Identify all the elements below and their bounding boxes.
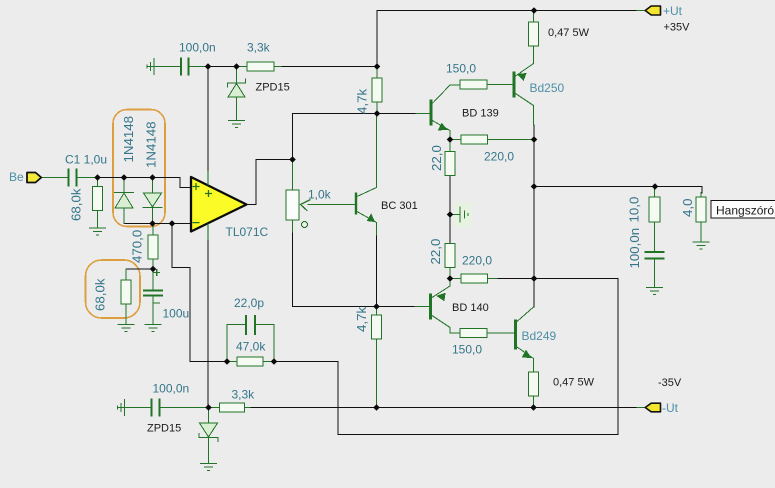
Zobel 10,0 lead and capacitor 100,0n right — [646, 252, 664, 259]
resistor 3,3k top body — [247, 62, 274, 71]
wire output column x=534 — [533, 125, 535, 307]
svg-text:BD 139: BD 139 — [462, 108, 499, 120]
svg-text:100,0n: 100,0n — [627, 228, 642, 269]
ground under 100u — [145, 325, 161, 332]
svg-text:1,0k: 1,0k — [308, 188, 332, 202]
junction Bd250 collector / 220,0 — [531, 136, 538, 143]
svg-text:100u: 100u — [163, 307, 190, 321]
wire +Ut top rail — [377, 11, 637, 67]
ground sideways mid — [450, 207, 468, 222]
svg-text:68,0k: 68,0k — [93, 278, 108, 311]
resistor 47,0k leads — [227, 361, 274, 363]
junction output to speaker — [531, 183, 538, 190]
22,0 column between emitters — [449, 140, 451, 279]
orange ring around 68,0k resistor — [86, 260, 141, 318]
diode D1 1N4148 cathode-up — [115, 178, 134, 224]
svg-text:+35V: +35V — [664, 22, 691, 34]
wire -Ut bottom rail — [250, 407, 637, 409]
junction 4,7k lower / -Ut rail — [373, 404, 380, 411]
ground under ZPD15 top — [229, 121, 245, 128]
junction inverting input node — [169, 220, 176, 227]
svg-text:1N4148: 1N4148 — [144, 121, 159, 168]
resistor 0,47 5W top leads — [533, 11, 535, 64]
capacitor 100u electrolytic — [144, 291, 162, 296]
junction +15V zener node left — [205, 63, 212, 70]
ground sideways bottom-left — [118, 400, 152, 416]
transistor BD139 — [430, 101, 433, 124]
resistor 0,47 5W top body — [529, 22, 539, 46]
junction 4,7k top / +Ut drop — [374, 63, 381, 70]
ground under 4,0 — [693, 242, 709, 249]
BC301 collector lead — [357, 114, 377, 197]
capacitor 22,0p with stubs — [227, 325, 274, 362]
resistor 68,0k input body — [93, 187, 103, 211]
ground sideways top-left — [147, 59, 180, 75]
svg-text:100,0n: 100,0n — [153, 382, 190, 396]
pad lead +Ut — [637, 10, 646, 12]
svg-text:Hangszóró: Hangszóró — [716, 204, 774, 218]
junction Bd249 collector / 220,0 / feedback — [531, 275, 538, 282]
junction BC301 emitter / 4,7k lower — [373, 303, 380, 310]
svg-text:3,3k: 3,3k — [232, 388, 256, 402]
svg-text:ZPD15: ZPD15 — [147, 423, 181, 435]
junction input node / 68,0k — [94, 174, 101, 181]
pad +Ut — [645, 6, 660, 15]
ground sideways mid highlight — [454, 203, 472, 227]
resistor 220,0 lower leads — [450, 278, 497, 280]
pad lead -Ut — [637, 407, 646, 409]
svg-text:0,47 5W: 0,47 5W — [553, 377, 595, 389]
junction op-amp output node — [374, 110, 381, 117]
resistor 3,3k bottom leads — [209, 407, 251, 409]
resistor 4,7k lower leads — [376, 307, 378, 408]
junction BD140 emitter / 22,0 / 220,0 — [447, 275, 454, 282]
wire op-amp output to driver bases node — [246, 114, 416, 205]
svg-text:C1 1,0u: C1 1,0u — [65, 153, 107, 167]
junction BD139 emitter / 22,0 / 220,0 — [447, 136, 454, 143]
resistor 22,0 lower body — [445, 244, 455, 268]
resistor 150,0 upper right lead — [487, 84, 513, 86]
resistor 4,7k upper body — [372, 78, 382, 102]
pad -Ut — [645, 403, 660, 412]
wire net +15V rail top-left to 4,7k — [204, 66, 377, 68]
svg-text:47,0k: 47,0k — [236, 340, 266, 354]
zener ZPD15 top — [228, 67, 246, 121]
svg-text:-35V: -35V — [658, 377, 682, 389]
resistor 150,0 lower right lead — [487, 332, 514, 334]
wire inverting node to 47,0k feedback resistor — [172, 224, 227, 362]
svg-text:0,47 5W: 0,47 5W — [548, 27, 590, 39]
resistor 220,0 upper leads — [450, 139, 534, 141]
junction 0,47 5W bottom / -Ut rail — [530, 404, 537, 411]
junction D1 anode-top — [121, 174, 128, 181]
junction -15V zener node — [205, 404, 212, 411]
pad lead Be — [41, 177, 69, 179]
resistor 10,0 body — [649, 197, 660, 222]
potentiometer 1,0k leads and wiper — [293, 160, 356, 233]
resistor 3,3k bottom body — [220, 403, 245, 412]
svg-text:Bd250: Bd250 — [530, 81, 565, 95]
resistor 220,0 upper body — [461, 135, 488, 144]
svg-text:TL071C: TL071C — [226, 225, 269, 239]
svg-text:4,7k: 4,7k — [354, 307, 369, 332]
Hangszoro box — [711, 201, 775, 219]
resistor 150,0 lower body — [460, 329, 487, 338]
capacitor 100,0n bottom — [152, 400, 160, 416]
resistor 68,0k lower body — [121, 280, 131, 304]
orange ring around 1N4148 diodes — [113, 110, 165, 227]
resistor 4,0 body — [696, 197, 706, 222]
resistor 68,0k input leads — [97, 178, 99, 228]
svg-text:220,0: 220,0 — [462, 254, 492, 268]
junction D2 top — [149, 174, 156, 181]
svg-text:4,0: 4,0 — [680, 199, 695, 218]
svg-text:68,0k: 68,0k — [69, 188, 84, 221]
svg-text:10,0: 10,0 — [627, 197, 642, 223]
resistor 0,47 5W bottom leads — [533, 396, 535, 408]
resistor 0,47 5W bottom body — [529, 372, 539, 396]
transistor BD140 — [429, 295, 432, 318]
wire node to 470,0 / 68,0k branch — [126, 268, 153, 270]
svg-text:BD 140: BD 140 — [452, 302, 489, 314]
svg-text:-Ut: -Ut — [662, 401, 679, 415]
potentiometer 1,0k body — [286, 190, 299, 220]
resistor 4,0 leads — [700, 193, 702, 242]
svg-text:22,0: 22,0 — [428, 239, 443, 265]
transistor BC301 — [355, 193, 357, 215]
wire diode bottom rail to op-amp - input — [124, 223, 191, 225]
junction 47,0k right / 22,0p — [271, 358, 278, 365]
svg-text:1N4148: 1N4148 — [121, 116, 136, 163]
svg-text:22,0p: 22,0p — [234, 296, 264, 310]
junction Zobel branch — [652, 183, 659, 190]
resistor 68,0k lower leads — [125, 269, 127, 324]
junction 47,0k left / 22,0p — [224, 358, 231, 365]
resistor 150,0 upper body — [460, 80, 487, 89]
wire between 22,0 emitter resistors — [449, 176, 451, 244]
ground under Zobel — [647, 288, 663, 295]
svg-text:BC 301: BC 301 — [381, 200, 418, 212]
resistor 22,0 upper body — [445, 152, 455, 176]
op-amp U1 TL071C — [191, 177, 247, 232]
resistor 470,0 body — [148, 235, 158, 259]
junction 0,47 5W top / +Ut rail — [531, 7, 538, 14]
diode D2 1N4148 cathode-down — [143, 178, 162, 224]
resistor 4,7k lower body — [372, 315, 382, 339]
svg-text:100,0n: 100,0n — [179, 41, 216, 55]
junction output jog / pot top — [289, 156, 296, 163]
svg-text:Bd249: Bd249 — [522, 329, 557, 343]
op-amp supply pin stubs — [207, 171, 209, 240]
resistor 3,3k top leads — [237, 66, 282, 68]
wire op-amp V+ and V- supply vertical — [207, 67, 209, 408]
svg-text:220,0: 220,0 — [484, 150, 514, 164]
wire lower 220,0 to output column — [494, 278, 534, 280]
pad Be — [27, 173, 41, 183]
BC301 emitter lead with arrow — [357, 212, 377, 236]
wire pot bottom to BD140 base — [293, 232, 416, 307]
svg-text:4,7k: 4,7k — [355, 89, 370, 114]
resistor 4,7k upper leads — [376, 67, 378, 114]
ground under 68,0k input — [90, 228, 106, 235]
ground under ZPD15 bottom — [201, 464, 217, 471]
transistor Bd250 — [513, 73, 516, 96]
wire input node to op-amp + input — [98, 178, 192, 188]
svg-text:Be: Be — [9, 170, 24, 184]
svg-text:470,0: 470,0 — [130, 230, 145, 263]
svg-text:150,0: 150,0 — [452, 343, 482, 357]
svg-text:3,3k: 3,3k — [247, 41, 271, 55]
resistor 470,0 leads — [152, 224, 154, 270]
junction 22,0 midpoint ground tap — [447, 211, 454, 218]
capacitor C1 1,0u — [69, 170, 77, 186]
wire output node to speaker branch — [534, 187, 702, 194]
wire BC301 emitter down to lower node — [376, 235, 378, 307]
svg-text:+Ut: +Ut — [663, 4, 683, 18]
capacitor 100,0n top-left — [181, 59, 189, 75]
100u polarity marks — [154, 270, 160, 303]
junction 470,0 / 100u / 68,0k node — [150, 266, 157, 273]
svg-text:150,0: 150,0 — [446, 62, 476, 76]
resistor 220,0 lower body — [461, 274, 488, 283]
junction +15V zener node right — [233, 63, 240, 70]
svg-text:ZPD15: ZPD15 — [256, 82, 290, 94]
zener ZPD15 bottom — [199, 408, 218, 464]
ground under 68,0k lower — [118, 325, 134, 332]
resistor 47,0k feedback body — [237, 357, 263, 366]
svg-text:22,0: 22,0 — [429, 145, 444, 171]
transistor Bd249 — [514, 321, 517, 348]
junction diode bottom rail — [149, 220, 156, 227]
wire feedback loop from output around bottom — [274, 279, 618, 435]
